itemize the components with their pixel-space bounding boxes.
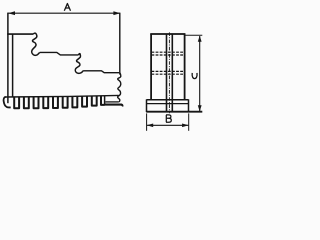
slot right edge [171, 34, 173, 112]
base bottom edge + C extension [146, 111, 202, 113]
block left side [150, 34, 152, 100]
base left edge [146, 99, 148, 112]
hidden line 1 [152, 51, 185, 53]
serration leading hook [4, 97, 11, 108]
base shoulder line [147, 99, 189, 101]
foot ledge line [106, 101, 119, 103]
jaw step surface 3 [84, 71, 120, 73]
label C [192, 73, 197, 79]
slot left edge [166, 34, 168, 112]
label A [64, 4, 70, 11]
serration root line [5, 95, 119, 97]
jaw step surface 2 [40, 52, 79, 55]
hidden line 3 [152, 70, 185, 72]
wire left extension / jaw left edge [7, 13, 9, 104]
dimension line A [8, 11, 120, 15]
slot centerline [168, 32, 170, 113]
foot bottom line [104, 105, 122, 107]
block right side [184, 34, 186, 100]
dimension line C [198, 36, 202, 112]
hidden line 2 [152, 54, 185, 56]
base right edge [188, 99, 190, 112]
B left extension line [146, 113, 148, 130]
dimension line B [147, 124, 189, 128]
label B [166, 115, 171, 122]
block top edge [150, 33, 185, 35]
jaw inner face vertical [12, 34, 14, 97]
foot left edge [104, 96, 106, 104]
hidden line 4 [152, 73, 185, 75]
C top extension line [185, 34, 202, 36]
break-line scalloped right edge [118, 73, 121, 102]
B right extension line [188, 113, 190, 130]
jaw top edge [7, 33, 33, 35]
base inner line [147, 103, 189, 105]
wire right extension / jaw right edge [119, 13, 121, 75]
jaw step break 1 [32, 33, 40, 55]
serrated teeth [14, 96, 104, 108]
jaw step break 2 [75, 54, 83, 74]
